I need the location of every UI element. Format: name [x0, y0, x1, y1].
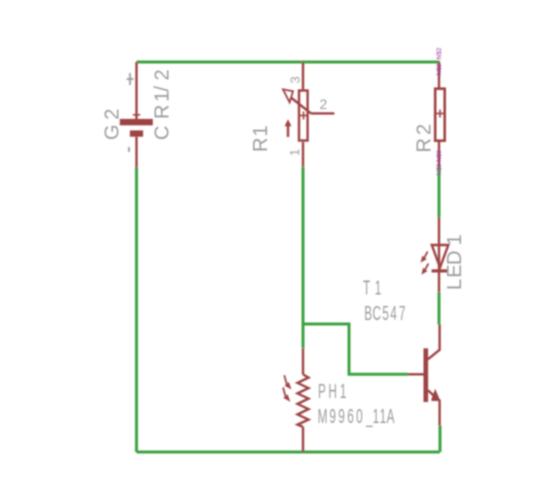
svg-text:N$9: N$9	[436, 163, 443, 175]
svg-text:N$2: N$2	[436, 63, 443, 75]
svg-text:M9960_11A: M9960_11A	[318, 406, 395, 428]
svg-text:R1: R1	[250, 125, 272, 152]
svg-text:2: 2	[320, 96, 328, 112]
svg-text:3: 3	[288, 76, 303, 83]
svg-text:N$9: N$9	[436, 150, 443, 162]
svg-text:R2: R2	[414, 124, 436, 153]
svg-text:N$2: N$2	[436, 47, 443, 59]
svg-text:1: 1	[287, 149, 302, 156]
svg-text:BC547: BC547	[364, 303, 405, 325]
svg-text:PH1: PH1	[318, 381, 346, 403]
svg-text:LED1: LED1	[444, 234, 466, 290]
svg-text:CR1/2: CR1/2	[152, 69, 174, 140]
svg-text:T1: T1	[363, 277, 381, 299]
